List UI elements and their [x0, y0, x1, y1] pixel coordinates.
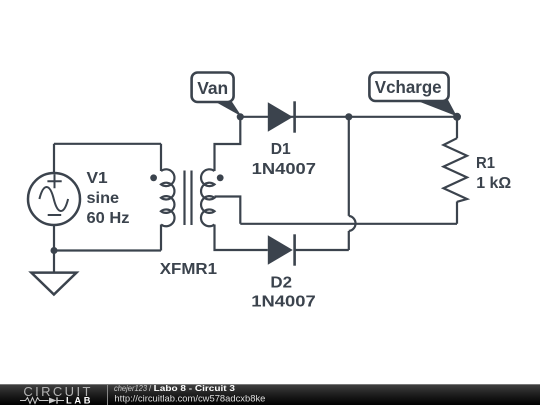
svg-text:http://circuitlab.com/cw578adc: http://circuitlab.com/cw578adcxb8ke	[114, 394, 265, 404]
svg-text:Labo 8 - Circuit 3: Labo 8 - Circuit 3	[154, 383, 236, 393]
svg-text:chejer123: chejer123	[114, 383, 147, 393]
svg-text:Vcharge: Vcharge	[375, 77, 442, 97]
svg-text:sine: sine	[87, 190, 120, 207]
svg-text:V1: V1	[87, 170, 108, 187]
svg-text:R1: R1	[476, 155, 495, 172]
svg-text:D2: D2	[270, 274, 292, 291]
svg-text:1N4007: 1N4007	[252, 161, 316, 178]
svg-text:XFMR1: XFMR1	[160, 261, 217, 278]
svg-text:1 kΩ: 1 kΩ	[476, 175, 511, 192]
svg-text:D1: D1	[271, 141, 291, 158]
svg-text:60 Hz: 60 Hz	[87, 210, 130, 227]
svg-text:Van: Van	[197, 78, 228, 98]
svg-text:LAB: LAB	[66, 395, 91, 405]
svg-text:1N4007: 1N4007	[251, 293, 316, 310]
